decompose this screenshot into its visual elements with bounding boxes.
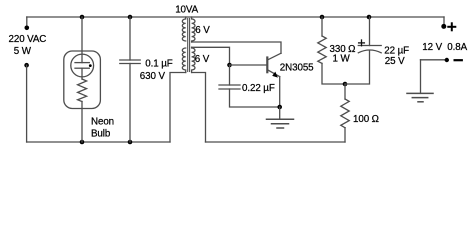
svg-text:1 W: 1 W <box>333 54 351 65</box>
wire C3 bottom lead <box>345 51 370 84</box>
wire base <box>230 64 267 66</box>
svg-text:12 V: 12 V <box>422 42 442 53</box>
wire C3 top lead <box>369 17 371 46</box>
transistor Q1 emitter <box>268 70 280 77</box>
transistor Q1 emitter arrow <box>272 72 278 78</box>
wire minus ground stub <box>420 60 422 94</box>
svg-text:6 V: 6 V <box>195 54 210 65</box>
neon bulb envelope <box>64 51 101 109</box>
wire secondary winding2 top to base node <box>192 47 230 63</box>
terminal output plus dot <box>441 24 446 29</box>
wire bulb bottom lead <box>81 102 83 143</box>
terminal minus sign <box>455 59 462 61</box>
svg-text:6 V: 6 V <box>195 25 210 36</box>
node AC terminal upper <box>25 26 30 31</box>
wire bulb top lead <box>81 17 83 63</box>
capacitor C2 0.22uF plates <box>219 84 240 86</box>
svg-text:22 µF: 22 µF <box>384 46 409 57</box>
wire C2 top lead <box>229 65 231 85</box>
transformer T1 secondary winding 2 <box>192 47 195 72</box>
wire secondary winding1 to collector <box>192 42 281 53</box>
wire C1 top lead <box>129 17 131 60</box>
node emitter ground junction <box>277 105 282 110</box>
capacitor C3 plus mark <box>359 40 365 46</box>
node AC terminal lower <box>24 63 29 68</box>
neon bulb upper electrode <box>75 62 89 64</box>
neon bulb gas dot <box>89 64 92 67</box>
junction C1 bottom <box>128 140 133 145</box>
neon bulb lower electrode <box>75 67 89 69</box>
svg-text:10VA: 10VA <box>175 5 198 16</box>
capacitor C3 22uF top plate <box>358 45 381 47</box>
svg-text:Neon: Neon <box>91 117 114 128</box>
wire bulb inner lead <box>81 68 83 79</box>
wire bottom rail left <box>27 141 170 143</box>
capacitor C3 22uF bottom plate curved <box>358 50 381 53</box>
terminal output minus dot <box>445 58 449 62</box>
junction C3 top <box>367 15 372 20</box>
svg-text:25 V: 25 V <box>385 56 405 67</box>
wire emitter lead <box>279 77 281 107</box>
svg-text:0.22 µF: 0.22 µF <box>242 83 275 94</box>
wire R1 top lead <box>321 17 323 36</box>
resistor inside bulb <box>78 79 87 102</box>
junction bulb bottom <box>80 140 85 145</box>
neon bulb circle <box>71 54 94 77</box>
wire secondary winding2 bottom return <box>192 73 206 143</box>
node base junction <box>227 63 232 68</box>
wire output plus drop <box>443 17 445 25</box>
wire left AC branch lower <box>26 65 28 142</box>
svg-text:5 W: 5 W <box>14 46 32 57</box>
svg-text:Bulb: Bulb <box>91 129 111 140</box>
ground symbol left <box>267 119 294 128</box>
wire ground stub <box>279 107 281 119</box>
transistor Q1 collector <box>268 53 281 60</box>
wire bottom rail right <box>206 141 346 143</box>
svg-text:0.1 µF: 0.1 µF <box>145 59 172 70</box>
capacitor C1 0.1uF plates <box>120 59 140 61</box>
wire left AC branch upper <box>26 17 28 26</box>
junction emitter rail node <box>343 82 348 87</box>
wire R1 bottom lead <box>322 63 345 84</box>
transformer T1 core <box>188 19 190 72</box>
resistor R1 330 ohm <box>318 36 326 63</box>
wire C1 bottom lead <box>129 64 131 143</box>
transformer T1 primary winding <box>182 17 185 73</box>
wire top rail <box>27 16 444 18</box>
junction C1 top <box>128 15 133 20</box>
svg-text:100 Ω: 100 Ω <box>353 114 379 125</box>
svg-text:0.8A: 0.8A <box>447 42 467 53</box>
junction bulb top <box>80 15 85 20</box>
ground symbol right <box>407 93 433 101</box>
transistor Q1 2N3055 base bar <box>266 58 268 73</box>
wire R2 bottom lead <box>344 128 346 142</box>
svg-text:630 V: 630 V <box>140 71 166 82</box>
svg-text:2N3055: 2N3055 <box>280 62 314 73</box>
terminal plus sign <box>448 23 455 30</box>
wire C2 bottom lead <box>230 89 280 107</box>
wire output minus <box>421 59 445 61</box>
wire primary bottom return <box>170 73 186 143</box>
svg-text:220 VAC: 220 VAC <box>9 34 47 45</box>
wire R2 top lead <box>344 84 346 99</box>
junction R1 top <box>320 15 325 20</box>
resistor R2 100 ohm <box>341 99 349 128</box>
transformer T1 secondary winding 1 <box>192 17 195 42</box>
